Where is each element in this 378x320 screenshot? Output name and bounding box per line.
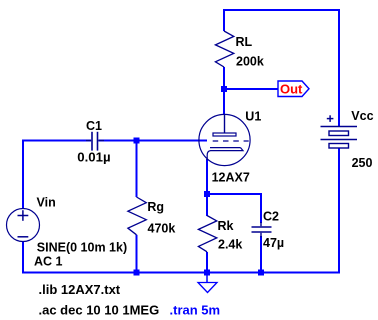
svg-text:200k: 200k xyxy=(236,54,264,68)
svg-text:.tran 5m: .tran 5m xyxy=(170,303,221,318)
svg-text:Out: Out xyxy=(280,81,303,96)
svg-text:.lib 12AX7.txt: .lib 12AX7.txt xyxy=(39,282,121,297)
svg-text:Rk: Rk xyxy=(218,219,234,233)
svg-text:Rg: Rg xyxy=(147,200,164,214)
svg-text:.ac dec 10 10 1MEG: .ac dec 10 10 1MEG xyxy=(39,303,160,318)
svg-text:U1: U1 xyxy=(245,110,261,124)
svg-text:RL: RL xyxy=(236,35,253,49)
svg-text:Vin: Vin xyxy=(37,196,56,210)
svg-text:AC 1: AC 1 xyxy=(34,255,63,269)
svg-text:Vcc: Vcc xyxy=(351,109,373,123)
svg-text:2.4k: 2.4k xyxy=(218,238,242,252)
svg-text:47µ: 47µ xyxy=(263,236,284,250)
svg-text:0.01µ: 0.01µ xyxy=(77,150,110,165)
svg-text:C1: C1 xyxy=(86,119,102,133)
svg-text:250: 250 xyxy=(352,156,373,170)
svg-text:470k: 470k xyxy=(148,222,176,236)
svg-text:SINE(0 10m 1k): SINE(0 10m 1k) xyxy=(37,240,127,254)
svg-text:12AX7: 12AX7 xyxy=(212,170,250,184)
svg-text:C2: C2 xyxy=(263,209,279,223)
